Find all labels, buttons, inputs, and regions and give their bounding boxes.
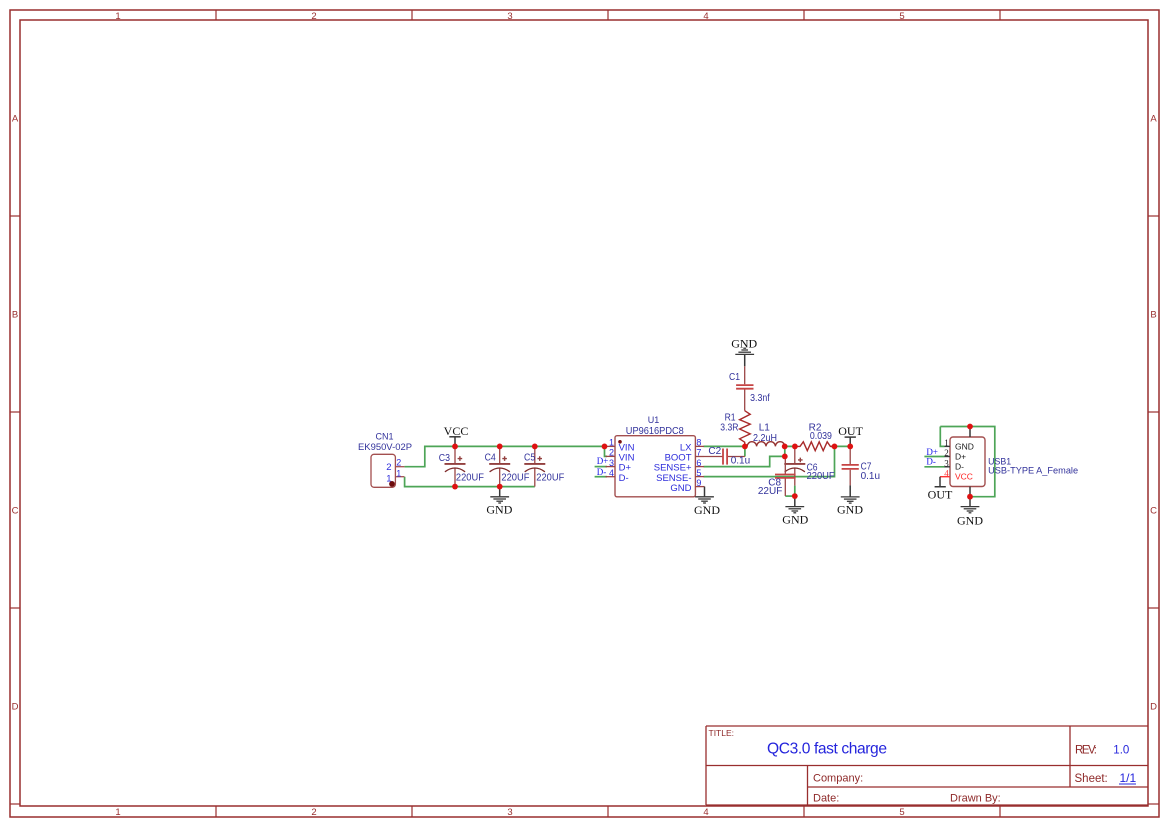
- svg-text:220UF: 220UF: [501, 473, 529, 484]
- U1 pin names right: [654, 442, 692, 494]
- capacitor C4: [499, 446, 501, 486]
- node OUT at L1 right: [782, 444, 788, 450]
- svg-text:TITLE:: TITLE:: [709, 728, 735, 738]
- resistor R1: [740, 411, 751, 447]
- node OUT at R2 right: [832, 444, 838, 450]
- svg-text:D-: D-: [619, 473, 629, 484]
- U1 label: [648, 415, 660, 425]
- C6 value 220UF: [807, 471, 835, 482]
- U1 pin numbers left: [609, 438, 614, 478]
- C1 label: [729, 372, 740, 383]
- net label D+ at U1: [597, 456, 609, 466]
- svg-text:0.1u: 0.1u: [731, 456, 750, 467]
- svg-text:3: 3: [609, 458, 614, 468]
- connector CN1: [371, 454, 404, 487]
- svg-text:8: 8: [696, 438, 701, 448]
- wire USB1 top loop to bottom GND: [940, 427, 995, 497]
- VCC text: [444, 424, 469, 438]
- CN1 pin name 1: [386, 473, 391, 484]
- capacitor C3: [454, 446, 456, 486]
- svg-text:220UF: 220UF: [536, 473, 564, 484]
- power flag OUT at rail: [845, 437, 856, 446]
- capacitor C2: [704, 456, 745, 458]
- svg-text:3: 3: [944, 458, 949, 468]
- wire OUT rail L1 to R2 to OUT flag: [785, 445, 851, 447]
- svg-text:C2: C2: [708, 446, 721, 457]
- svg-text:1: 1: [386, 473, 391, 484]
- svg-text:22UF: 22UF: [758, 486, 782, 497]
- resistor R2: [795, 442, 835, 451]
- svg-text:4: 4: [944, 468, 949, 478]
- title block label Company:: [813, 773, 863, 785]
- svg-text:9: 9: [696, 478, 701, 488]
- USB1 label: [988, 457, 1011, 468]
- svg-text:0.039: 0.039: [810, 431, 832, 442]
- R1 value 3.3R: [720, 423, 738, 434]
- svg-text:4: 4: [703, 11, 708, 22]
- capacitor C6: [794, 446, 796, 485]
- svg-text:D: D: [12, 702, 19, 713]
- svg-text:UP9616PDC8: UP9616PDC8: [626, 426, 684, 437]
- frame column numbers top: [115, 11, 904, 22]
- C6 label: [807, 462, 818, 473]
- wire VCC top rail CN1 pin2 to U1 pin1: [404, 446, 604, 466]
- svg-text:GND: GND: [957, 513, 983, 527]
- svg-text:C3: C3: [439, 453, 451, 464]
- svg-text:EK950V-02P: EK950V-02P: [358, 442, 412, 452]
- svg-text:VCC: VCC: [955, 472, 973, 482]
- svg-text:OUT: OUT: [838, 424, 863, 438]
- U1 left pin stubs: [606, 446, 616, 476]
- svg-text:C1: C1: [729, 372, 740, 383]
- svg-text:D-: D-: [926, 457, 936, 467]
- svg-text:D-: D-: [955, 462, 964, 472]
- title block label Drawn By:: [950, 793, 1001, 805]
- node GND rail at C3: [452, 484, 458, 490]
- wire D- stub at U1 pin4: [595, 476, 607, 478]
- svg-text:QC3.0 fast charge: QC3.0 fast charge: [767, 740, 887, 757]
- capacitor C8: [784, 456, 786, 496]
- ground flag at U1 pin9: [695, 487, 714, 503]
- svg-text:1: 1: [396, 468, 401, 478]
- node VCC rail at C5: [532, 444, 538, 450]
- wire SENSE+ U1 pin6 to OUT node: [704, 446, 785, 466]
- CN1 value EK950V-02P: [358, 442, 412, 452]
- title block label TITLE:: [709, 728, 735, 738]
- svg-text:4: 4: [703, 807, 708, 818]
- svg-text:3: 3: [507, 807, 512, 818]
- svg-text:220UF: 220UF: [456, 473, 484, 484]
- node GND rail at C4: [497, 484, 503, 490]
- svg-text:B: B: [12, 310, 18, 321]
- node GND below C6: [792, 493, 798, 499]
- svg-text:GND: GND: [670, 483, 691, 494]
- svg-text:U1: U1: [648, 415, 660, 425]
- svg-text:C: C: [1150, 506, 1157, 517]
- connector USB1: [950, 437, 985, 487]
- C3 value 220UF: [456, 473, 484, 484]
- svg-text:GND: GND: [782, 512, 808, 526]
- node OUT at C7: [847, 444, 853, 450]
- R1 label: [725, 413, 736, 424]
- IC U1: [615, 436, 695, 497]
- svg-text:3: 3: [507, 11, 512, 22]
- frame row letters left: [12, 114, 19, 713]
- svg-text:0.1u: 0.1u: [861, 471, 880, 482]
- C7 label: [861, 462, 872, 473]
- C5 value 220UF: [536, 473, 564, 484]
- svg-text:Drawn By:: Drawn By:: [950, 793, 1001, 805]
- R2 label: [809, 423, 822, 434]
- wire U1 pin1 to pin2: [605, 446, 608, 456]
- svg-text:1: 1: [115, 11, 120, 22]
- node OUT at C6: [792, 444, 798, 450]
- title block label REV:: [1075, 745, 1097, 757]
- GND text above C1: [731, 336, 757, 350]
- title block label Date:: [813, 793, 839, 805]
- C3 label: [439, 453, 451, 464]
- svg-text:C: C: [12, 506, 19, 517]
- wire C8 bottom to GND junction: [785, 495, 795, 497]
- svg-text:2: 2: [311, 807, 316, 818]
- GND text below USB1: [957, 513, 983, 527]
- svg-text:C4: C4: [485, 453, 497, 464]
- svg-text:Company:: Company:: [813, 773, 863, 785]
- wire C6 bottom to GND junction: [794, 486, 796, 497]
- USB1 pin name GND: [955, 441, 974, 451]
- svg-text:1: 1: [115, 807, 120, 818]
- L1 value 2.2uH: [753, 433, 777, 444]
- svg-text:B: B: [1150, 310, 1156, 321]
- svg-text:2: 2: [396, 458, 401, 468]
- USB1 pin name VCC: [955, 472, 973, 482]
- node SENSE+ at C8 top: [782, 454, 788, 460]
- rev value 1.0: [1113, 744, 1129, 756]
- node VCC rail at U1 pin1: [602, 444, 608, 450]
- U1 right pin stubs: [695, 446, 704, 486]
- C2 value 0.1u: [731, 456, 750, 467]
- svg-text:7: 7: [696, 448, 701, 458]
- USB1 pin name D-: [955, 462, 964, 472]
- svg-text:VCC: VCC: [444, 424, 469, 438]
- USB1 pin name D+: [955, 451, 966, 461]
- L1 label: [759, 423, 771, 434]
- USB1 value USB-TYPE A_Female: [988, 465, 1078, 476]
- svg-text:Sheet:: Sheet:: [1075, 773, 1108, 785]
- R2 value 0.039: [810, 431, 832, 442]
- svg-text:1: 1: [609, 438, 614, 448]
- inductor L1: [745, 442, 785, 447]
- net label D+ at USB1: [926, 447, 938, 457]
- svg-text:D+: D+: [955, 451, 966, 461]
- node VCC rail at C4: [497, 444, 503, 450]
- ground flag below C6/C8: [785, 496, 804, 513]
- svg-text:5: 5: [899, 11, 904, 22]
- U1 pin names left: [619, 442, 635, 484]
- svg-text:A: A: [12, 114, 19, 125]
- capacitor C7: [849, 446, 851, 485]
- GND text below C7: [837, 503, 863, 517]
- GND text below C4: [486, 503, 512, 517]
- net label D- at U1: [597, 467, 607, 477]
- C4 value 220UF: [501, 473, 529, 484]
- svg-text:C5: C5: [524, 453, 536, 464]
- frame row ticks left: [10, 216, 20, 804]
- ground flag below C7: [841, 485, 860, 503]
- node GND at USB1 bottom: [967, 494, 973, 500]
- svg-text:2: 2: [944, 448, 949, 458]
- svg-text:2: 2: [311, 11, 316, 22]
- USB1 left pin stubs: [945, 446, 951, 466]
- svg-text:6: 6: [696, 458, 701, 468]
- svg-text:D: D: [1150, 702, 1157, 713]
- ground flag below C4: [490, 487, 509, 503]
- C5 label: [524, 453, 536, 464]
- USB1 pin4 drop to OUT flag: [935, 477, 946, 487]
- wire USB1 pin1 to top loop: [940, 427, 944, 447]
- svg-text:1: 1: [944, 438, 949, 448]
- USB1 pin numbers: [944, 438, 949, 468]
- svg-text:5: 5: [696, 468, 701, 478]
- junction dots: [452, 424, 973, 500]
- svg-text:2.2uH: 2.2uH: [753, 433, 777, 444]
- svg-text:1.0: 1.0: [1113, 744, 1129, 756]
- svg-text:GND: GND: [694, 503, 720, 517]
- CN1 pin name 2: [386, 462, 391, 473]
- GND text below C6/C8: [782, 512, 808, 526]
- frame column numbers bottom: [115, 807, 904, 818]
- capacitor C5: [534, 446, 536, 486]
- svg-text:D+: D+: [597, 456, 609, 466]
- OUT text at rail: [838, 424, 863, 438]
- C7 value 0.1u: [861, 471, 880, 482]
- title block grid: [706, 726, 1148, 805]
- wire LX node U1 pin8 to L1: [704, 446, 745, 456]
- wire D+ at USB1 pin2: [924, 456, 944, 458]
- CN1 pin number 2: [396, 458, 401, 468]
- title text QC3.0 fast charge: [767, 740, 887, 757]
- capacitor C1: [744, 366, 746, 410]
- USB1 pin4 stub red: [940, 476, 950, 478]
- svg-text:5: 5: [899, 807, 904, 818]
- wire GND bottom rail CN1 pin1 to C5: [405, 477, 535, 487]
- node GND at USB1 top: [967, 424, 973, 430]
- svg-text:Date:: Date:: [813, 793, 839, 805]
- svg-text:GND: GND: [955, 441, 974, 451]
- svg-text:USB-TYPE A_Female: USB-TYPE A_Female: [988, 465, 1078, 476]
- CN1 corner dot: [389, 481, 395, 487]
- C2 label: [708, 446, 721, 457]
- USB1 pin number 4 red: [944, 468, 949, 478]
- node LX at R1/L1: [742, 444, 748, 450]
- wire D+ stub at U1 pin3: [595, 466, 607, 468]
- svg-text:GND: GND: [837, 503, 863, 517]
- U1 pin1 marker dot: [618, 440, 622, 444]
- USB1 bottom pin stem: [969, 487, 971, 497]
- frame row letters right: [1150, 114, 1157, 713]
- C1 value 3.3nf: [750, 393, 770, 404]
- svg-text:CN1: CN1: [375, 431, 393, 441]
- svg-text:GND: GND: [486, 503, 512, 517]
- svg-text:3.3R: 3.3R: [720, 423, 738, 434]
- frame column ticks bottom: [216, 806, 1000, 817]
- svg-text:2: 2: [609, 448, 614, 458]
- wire SENSE- U1 pin5 to R2 right: [704, 446, 835, 476]
- OUT text at USB1: [928, 487, 953, 501]
- sheet value 1/1: [1119, 771, 1137, 785]
- CN1 pin number 1: [396, 468, 401, 478]
- C4 label: [485, 453, 497, 464]
- frame column ticks top: [216, 10, 1000, 20]
- power flag VCC: [449, 437, 460, 447]
- svg-text:D-: D-: [597, 467, 607, 477]
- CN1 label: [375, 431, 393, 441]
- svg-text:220UF: 220UF: [807, 471, 835, 482]
- frame row ticks right: [1148, 216, 1159, 804]
- ground flag above C1 (flipped): [735, 348, 754, 366]
- GND text at U1 pin9: [694, 503, 720, 517]
- net label D- at USB1: [926, 457, 936, 467]
- svg-text:REV:: REV:: [1075, 745, 1097, 757]
- U1 pin numbers right: [696, 438, 701, 489]
- C8 value 22UF: [758, 486, 782, 497]
- svg-text:3.3nf: 3.3nf: [750, 393, 770, 404]
- U1 value UP9616PDC8: [626, 426, 684, 437]
- wire D- at USB1 pin3: [924, 466, 944, 468]
- title block label Sheet:: [1075, 773, 1108, 785]
- svg-text:A: A: [1150, 114, 1157, 125]
- svg-text:OUT: OUT: [928, 487, 953, 501]
- svg-text:2: 2: [386, 462, 391, 473]
- svg-text:GND: GND: [731, 336, 757, 350]
- svg-text:4: 4: [609, 468, 614, 478]
- svg-text:1/1: 1/1: [1120, 771, 1137, 785]
- ground flag below USB1: [961, 497, 980, 513]
- node VCC rail at C3: [452, 444, 458, 450]
- USB1 top pin stem: [969, 427, 971, 438]
- C8 label: [768, 478, 781, 489]
- svg-text:D+: D+: [926, 447, 938, 457]
